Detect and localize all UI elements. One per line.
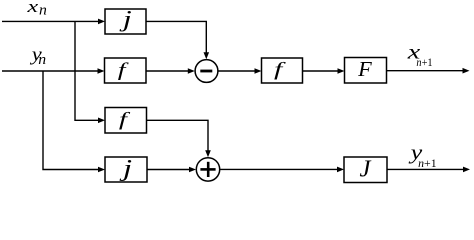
node xn input label [26,0,47,19]
svg-text:n+1: n+1 [416,57,432,70]
svg-text:F: F [357,57,372,80]
block F6 [345,57,387,83]
wire plus junction to block J7 [220,167,344,173]
block j4 [105,155,147,182]
wire branch from yn down to block j4 [43,71,105,172]
wire minus junction to block f5 [218,68,261,74]
svg-text:n+1: n+1 [418,157,437,170]
wire block f5 to block F6 [303,68,345,74]
block f3 [105,108,147,134]
wire branch from xn down to block f3 [75,21,105,123]
wire xn input to block j1 [2,19,105,25]
block f5 [262,58,303,83]
wire block j4 to plus junction [147,167,196,173]
summing junction minus [195,60,218,83]
wire block f3 to plus junction [147,120,211,157]
svg-text:x: x [26,0,39,16]
block j1 [105,6,146,34]
svg-text:n: n [39,2,47,19]
node yn+1 output label [409,141,437,170]
node xn+1 output label [407,42,433,70]
svg-text:n: n [38,51,46,68]
block J7 [344,156,387,183]
wire yn input to block f2 [2,68,105,74]
node yn input label [30,44,47,68]
wire block F6 output [387,68,470,74]
wire block f2 to minus junction [146,68,195,74]
summing junction plus [196,158,219,181]
wire block j1 to minus junction [146,21,209,59]
svg-text:J: J [360,156,372,183]
block f2 [105,58,147,83]
wire block J7 output [387,167,470,173]
